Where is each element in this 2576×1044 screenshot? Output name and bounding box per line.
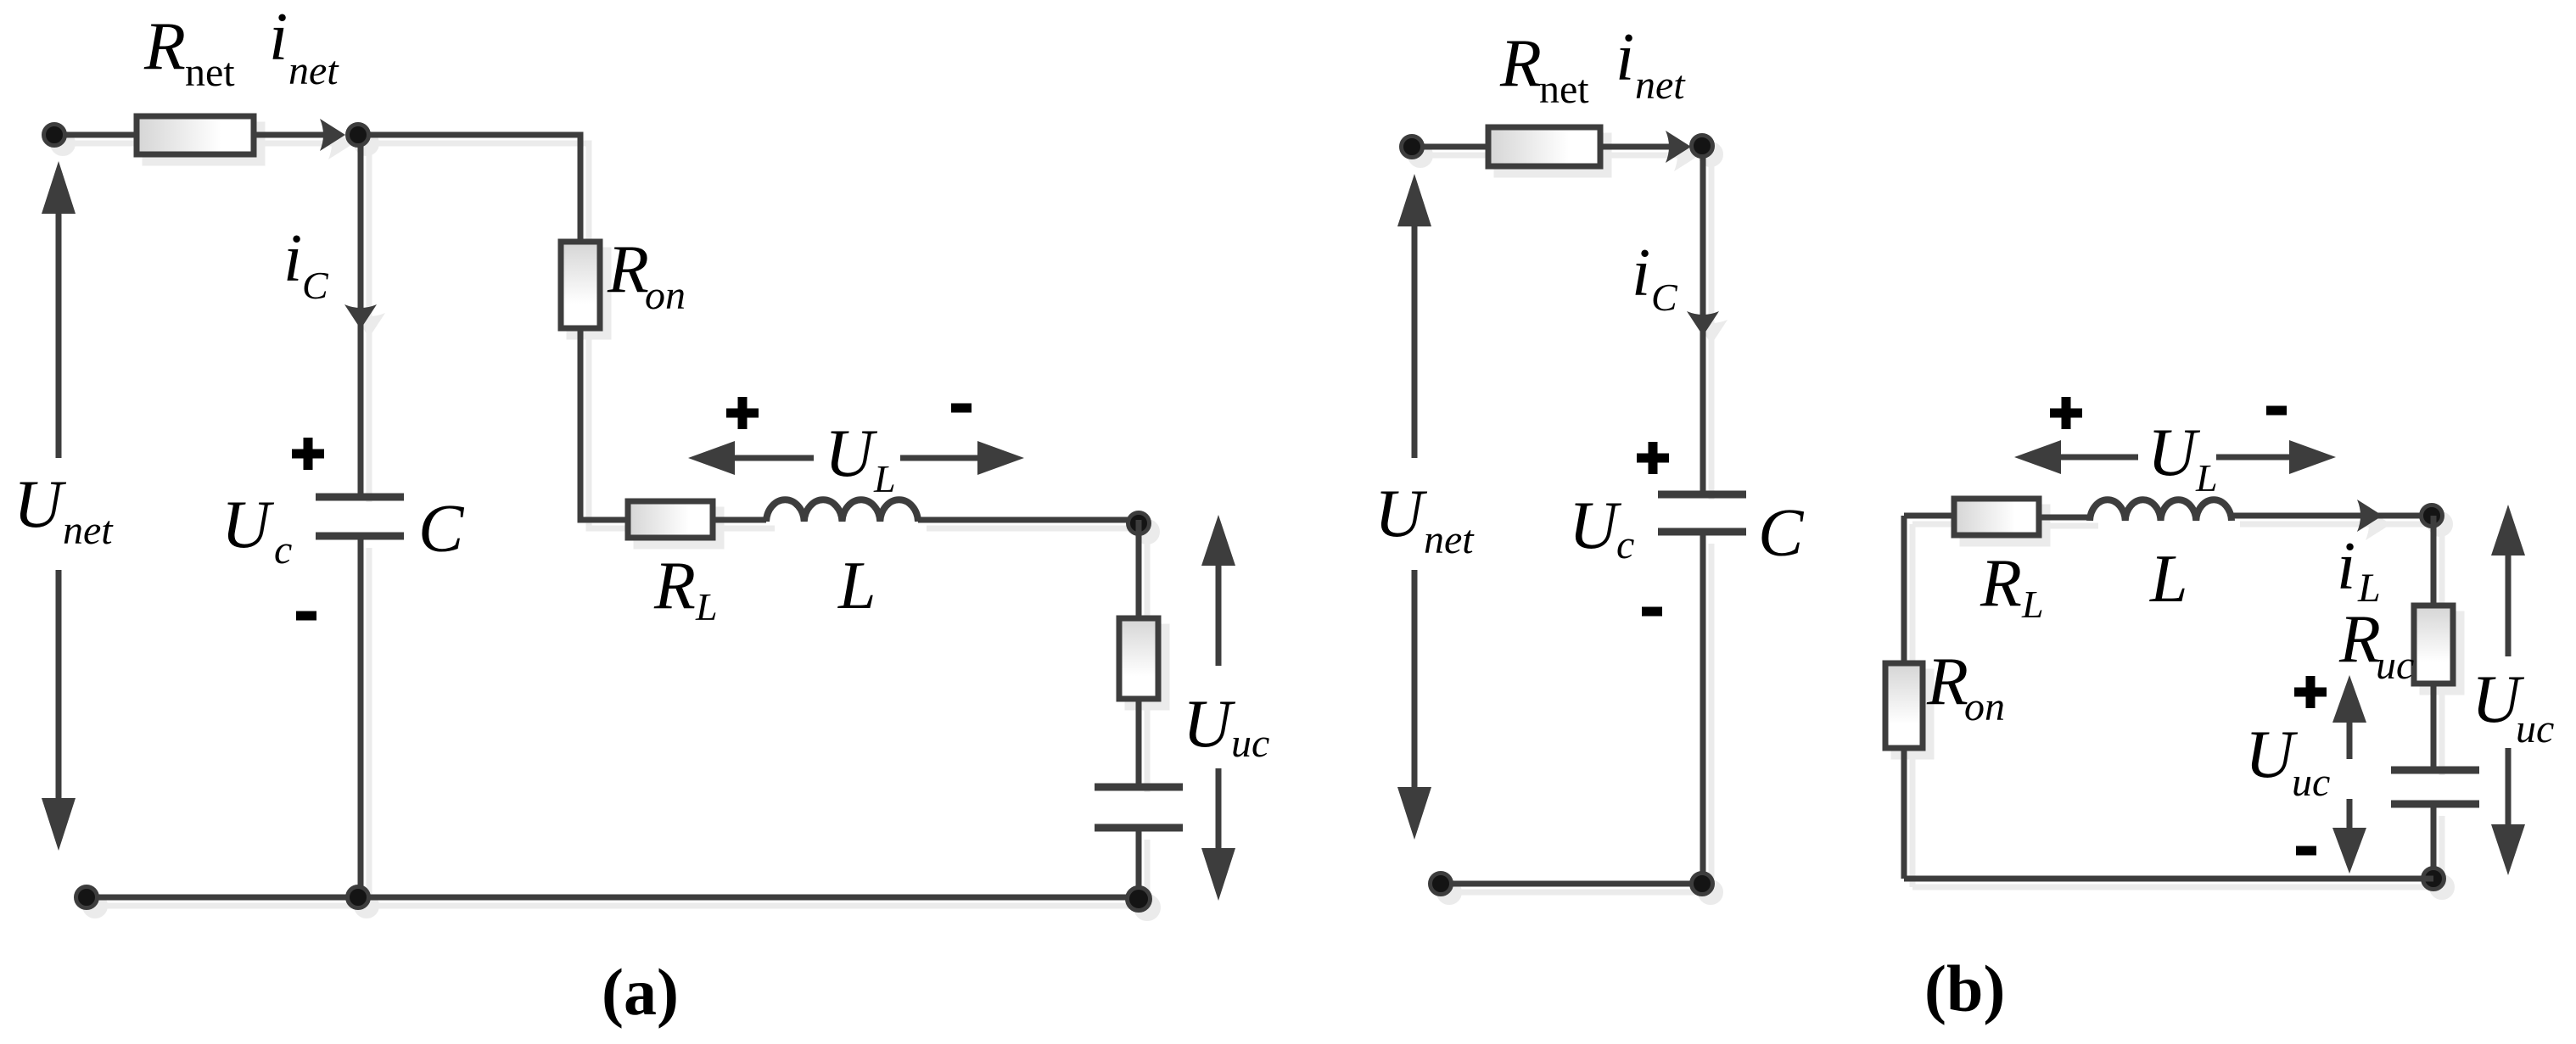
svg-text:R: R — [143, 9, 186, 84]
voltage arrow U_net upper (b) — [1397, 174, 1431, 226]
wire: R_on to top corner (b) — [1901, 516, 1907, 663]
svg-text:C: C — [1758, 496, 1805, 571]
wire: capacitor to bottom node (b) — [2431, 807, 2437, 879]
resistor R_L (a) — [628, 501, 713, 538]
svg-text:U: U — [221, 488, 275, 562]
svg-text:C: C — [302, 264, 329, 307]
node dot junction bottom (a) — [348, 887, 369, 908]
svg-text:R: R — [1499, 26, 1542, 101]
wire: circuit a top left from source node to junction — [54, 132, 339, 138]
minus sign U_L (b) — [2266, 406, 2287, 416]
node dot source + (b) — [1402, 137, 1423, 158]
svg-text:i: i — [1616, 20, 1634, 95]
wire: capacitor C branch (b) — [1700, 147, 1706, 884]
plus sign capacitor (a) — [292, 449, 324, 459]
svg-text:L: L — [2149, 542, 2188, 617]
inductor L (b) — [2090, 500, 2232, 521]
voltage arrow U_uc outer lower (b) — [2506, 748, 2512, 827]
svg-text:i: i — [283, 221, 302, 296]
svg-text:uc: uc — [2292, 760, 2330, 805]
voltage arrow U_L right (b) — [2216, 455, 2291, 461]
svg-text:i: i — [269, 0, 288, 75]
voltage arrow U_L left (a) — [688, 441, 735, 475]
svg-text:L: L — [695, 585, 718, 628]
svg-text:c: c — [274, 528, 292, 572]
svg-text:uc: uc — [2516, 706, 2554, 751]
arrowhead i_L (b) — [2357, 500, 2383, 532]
svg-text:L: L — [2021, 583, 2044, 626]
svg-text:net: net — [288, 48, 339, 93]
wire: bottom rail (b right) — [1904, 876, 2433, 882]
wire: node down to resistor (a right branch) — [1136, 520, 1142, 618]
arrowhead i_net (a) — [320, 119, 345, 151]
svg-text:U: U — [14, 467, 67, 542]
capacitor C plates (a) — [316, 497, 404, 536]
svg-text:U: U — [1569, 489, 1622, 563]
resistor R_L (b) — [1954, 499, 2039, 535]
arrowhead i_net (b) — [1666, 131, 1691, 163]
svg-text:i: i — [2337, 529, 2355, 604]
capacitor C plates (b) — [1658, 494, 1746, 532]
svg-text:U: U — [1375, 477, 1428, 551]
svg-text:net: net — [1635, 63, 1686, 108]
svg-text:i: i — [1632, 236, 1650, 310]
svg-text:c: c — [1616, 522, 1634, 567]
voltage arrow U_net upper (a) — [42, 161, 76, 214]
svg-text:L: L — [837, 549, 876, 623]
svg-text:on: on — [645, 273, 686, 318]
svg-text:R: R — [1980, 546, 2022, 621]
wire: junction to R_on top corner (a) — [358, 135, 580, 242]
minus sign capacitor (a) — [296, 611, 316, 621]
node dot right top (a) — [1128, 513, 1150, 534]
svg-text:U: U — [2245, 717, 2299, 792]
node dot source + (a) — [44, 125, 65, 146]
wire: circuit b top left — [1412, 144, 1684, 150]
node dot bottom right (b) — [2423, 868, 2444, 890]
svg-text:net: net — [1539, 67, 1589, 112]
inductor L (a) — [766, 500, 918, 522]
wire: R_uc to capacitor (b) — [2431, 684, 2437, 767]
svg-text:R: R — [653, 549, 696, 623]
node dot source - (a) — [76, 887, 98, 908]
svg-text:uc: uc — [2376, 643, 2414, 688]
capacitor plates (a right branch) — [1095, 787, 1183, 828]
wire: inductor to node (b) with i_L — [2232, 513, 2432, 519]
wire: capacitor C branch (a) — [358, 135, 364, 897]
svg-text:net: net — [63, 508, 114, 553]
voltage arrow U_uc lower (a) — [1216, 768, 1222, 850]
svg-text:(a): (a) — [602, 955, 679, 1029]
minus sign capacitor (b) — [1642, 607, 1662, 617]
resistor R_uc (a, unlabeled) — [1119, 618, 1158, 699]
voltage arrow U_uc inner lower (b) — [2347, 799, 2353, 835]
voltage arrow U_L right (a) — [900, 455, 978, 461]
wire: bottom rail (b left) — [1441, 881, 1703, 887]
svg-text:net: net — [185, 50, 235, 95]
wire: node down to R_uc (b) — [2431, 516, 2437, 606]
wire: bottom rail (a) — [87, 895, 1139, 901]
svg-text:on: on — [1964, 684, 2005, 729]
svg-text:U: U — [1183, 687, 1236, 762]
voltage arrow U_uc inner upper (b) — [2332, 675, 2366, 723]
svg-text:R: R — [607, 232, 649, 307]
voltage arrow U_uc upper (a) — [1201, 515, 1235, 566]
svg-text:L: L — [2195, 456, 2218, 500]
svg-text:C: C — [418, 492, 465, 567]
plus sign capacitor (b) — [1637, 454, 1669, 463]
wire: R_L to inductor (a) — [713, 517, 766, 523]
resistor Rnet (a) — [137, 116, 254, 154]
arrowhead i_C (a) — [344, 304, 377, 329]
wire: capacitor to bottom (a right branch) — [1136, 831, 1142, 897]
plus sign U_L (b) — [2050, 409, 2082, 418]
svg-text:R: R — [1926, 645, 1968, 719]
svg-text:R: R — [2338, 602, 2381, 677]
svg-text:L: L — [873, 457, 896, 500]
node dot source - (b) — [1431, 874, 1452, 895]
node dot top right (b) — [2422, 505, 2443, 527]
arrowhead i_C (b) — [1687, 311, 1719, 336]
svg-text:C: C — [1651, 276, 1678, 319]
node dot bottom right (a) — [1128, 888, 1151, 911]
wire: R_L to inductor (b) — [2039, 515, 2090, 521]
svg-text:uc: uc — [1231, 721, 1269, 766]
node dot junction top (b) — [1692, 136, 1713, 157]
wire: inductor to right node (a) — [918, 517, 1139, 523]
node dot junction top (a) — [348, 125, 369, 146]
wire: resistor to capacitor (a right branch) — [1136, 699, 1142, 784]
minus sign U_L (a) — [951, 404, 972, 413]
voltage arrow U_uc outer upper (b) — [2491, 505, 2525, 555]
voltage arrow U_net lower (b) — [1412, 570, 1418, 789]
svg-text:net: net — [1424, 517, 1475, 562]
resistor R_uc (b) — [2414, 606, 2453, 684]
node dot junction bottom (b) — [1692, 874, 1713, 895]
resistor R_on (a) — [561, 242, 600, 328]
plus sign U_uc inner (b) — [2294, 688, 2327, 697]
capacitor plates (b right) — [2391, 770, 2479, 804]
resistor R_on (b) — [1885, 663, 1923, 748]
voltage arrow U_net lower (a) — [56, 570, 62, 801]
resistor Rnet (b) — [1488, 127, 1600, 166]
voltage arrow U_L left (b) — [2014, 440, 2061, 474]
minus sign U_uc inner (b) — [2296, 846, 2316, 856]
wire: R_on bottom to R_L (a) — [580, 328, 628, 520]
svg-text:U: U — [825, 416, 878, 491]
wire: left side up to R_on (b) — [1901, 748, 1907, 879]
wire: b right loop top left corner to R_L — [1904, 513, 1954, 519]
plus sign U_L (a) — [726, 409, 759, 418]
svg-text:(b): (b) — [1924, 952, 2005, 1025]
svg-text:U: U — [2148, 416, 2201, 490]
